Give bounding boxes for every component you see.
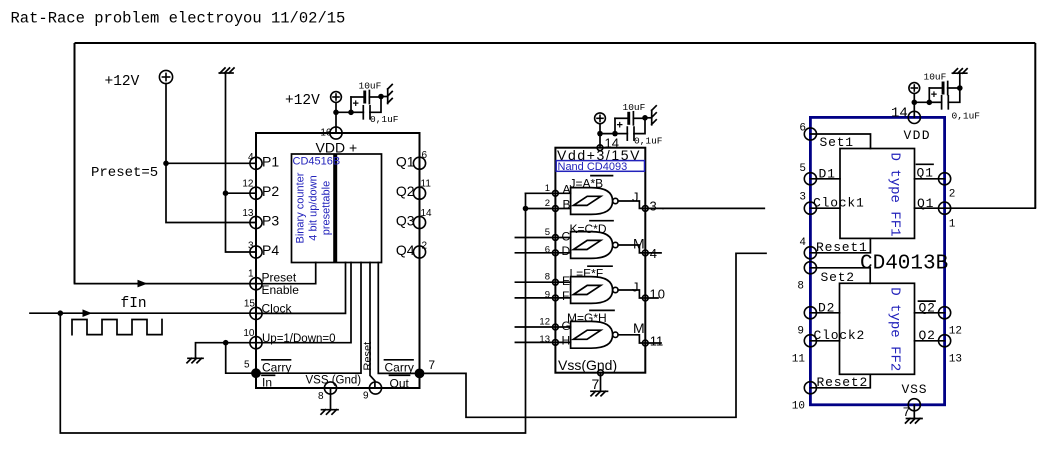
wire Reset1 into FF1 bbox=[810, 238, 870, 252]
svg-text:12: 12 bbox=[539, 317, 550, 328]
wire Set2 into FF2 bbox=[810, 268, 870, 284]
svg-text:11: 11 bbox=[792, 353, 806, 365]
counter pin P2 (12) bbox=[250, 187, 262, 199]
ground (top chassis symbol) bbox=[219, 68, 234, 73]
svg-text:8: 8 bbox=[545, 272, 550, 283]
wire Reset2 into FF2 bbox=[810, 374, 870, 388]
svg-text:2: 2 bbox=[545, 198, 550, 209]
node cap ground node bbox=[642, 115, 648, 121]
svg-text:J=A*B: J=A*B bbox=[570, 177, 604, 191]
svg-text:Reset: Reset bbox=[362, 342, 374, 371]
node cap ground node bbox=[378, 94, 384, 100]
wire junction to P1 bbox=[166, 162, 256, 164]
wire to cap node bbox=[600, 133, 615, 135]
svg-text:1: 1 bbox=[949, 219, 956, 231]
wire Q1 to feedback loop bbox=[915, 207, 1036, 209]
ground under FF pin 7 bbox=[906, 405, 923, 423]
capacitor C6 0,1uF bbox=[929, 101, 941, 103]
gate U2C schmitt mark bbox=[573, 285, 600, 294]
gate U2A output bubble bbox=[613, 198, 618, 203]
NAND pin 4 bbox=[642, 250, 648, 256]
capacitor C2 0,1uF bbox=[351, 111, 363, 113]
svg-text:10uF: 10uF bbox=[359, 81, 382, 92]
svg-text:10: 10 bbox=[792, 400, 805, 412]
svg-text:M=G*H: M=G*H bbox=[567, 311, 607, 325]
svg-text:5: 5 bbox=[244, 360, 250, 371]
NAND pin 8 bbox=[553, 279, 559, 285]
counter pin 7 Carry Out (junction dot) bbox=[415, 369, 425, 379]
svg-text:9: 9 bbox=[363, 391, 369, 402]
wire junction down to Carry In bbox=[226, 343, 256, 374]
counter pin 8 VSS bbox=[324, 382, 336, 394]
svg-text:2: 2 bbox=[422, 241, 428, 252]
wire pin15 into chip bbox=[256, 263, 346, 314]
svg-text:+: + bbox=[353, 98, 359, 110]
wire feedback loop (Q1 to Preset Enable): top segment bbox=[75, 42, 1036, 44]
wire Clock1 stub bbox=[810, 207, 840, 209]
FF1 inner box bbox=[840, 149, 915, 239]
node junction +12V/P1 bbox=[163, 161, 169, 167]
svg-text:7: 7 bbox=[592, 376, 600, 392]
svg-text:11: 11 bbox=[421, 179, 432, 190]
capacitor C4 0,1uF bbox=[615, 133, 627, 135]
power +12V terminal (FF) bbox=[909, 83, 920, 94]
gate U2B (K=C*D) body bbox=[571, 232, 613, 259]
gate U2D output wire to pin 11 bbox=[618, 335, 661, 343]
wire Q2 stub bbox=[915, 340, 945, 342]
ground under NAND pin 7 bbox=[591, 373, 608, 396]
ground (rotated chassis, counter caps) bbox=[388, 85, 393, 104]
svg-text:15: 15 bbox=[244, 299, 256, 310]
FF pin 8 Set2 bbox=[804, 262, 816, 274]
svg-text:F: F bbox=[562, 289, 569, 303]
svg-text:P4: P4 bbox=[262, 242, 279, 258]
svg-text:Nand CD4093: Nand CD4093 bbox=[558, 161, 628, 173]
arrow on fIn wire bbox=[83, 309, 93, 317]
svg-text:Carry: Carry bbox=[385, 360, 414, 374]
ground (mid-left chassis) bbox=[187, 358, 203, 363]
counter pin P1 (4) bbox=[250, 157, 262, 169]
wire supply to pin 16 bbox=[335, 102, 337, 133]
gate U2A output wire to pin 3 bbox=[618, 201, 663, 208]
svg-text:13: 13 bbox=[242, 208, 254, 219]
NAND U2 box bbox=[555, 148, 645, 373]
svg-text:CD4516B: CD4516B bbox=[293, 155, 341, 167]
node junction ground/P2 bbox=[223, 190, 229, 196]
power +12V terminal (NAND) bbox=[595, 113, 606, 124]
NAND pin 9 bbox=[553, 295, 559, 301]
svg-text:3: 3 bbox=[799, 192, 806, 204]
svg-text:Q4: Q4 bbox=[396, 242, 415, 258]
node junction cap branch bbox=[597, 131, 603, 137]
power +12V terminal (left) bbox=[159, 70, 172, 83]
svg-text:Rat-Race problem electroyou 11: Rat-Race problem electroyou 11/02/15 bbox=[11, 10, 346, 28]
svg-text:+: + bbox=[931, 89, 937, 101]
wire feedback loop: left segment bbox=[74, 43, 76, 284]
svg-text:D type FF2: D type FF2 bbox=[887, 287, 903, 371]
wire supply to pin 14 bbox=[599, 124, 601, 148]
svg-text:Out: Out bbox=[390, 376, 410, 390]
svg-text:12: 12 bbox=[242, 179, 254, 190]
svg-text:5: 5 bbox=[799, 163, 806, 175]
svg-text:VDD +: VDD + bbox=[316, 140, 358, 156]
wire fIn feed to NAND inputs (bottom run) bbox=[60, 193, 525, 433]
svg-text:M: M bbox=[633, 320, 645, 336]
NAND pin 1 bbox=[553, 190, 559, 196]
svg-text:8: 8 bbox=[797, 280, 804, 292]
svg-text:Set2: Set2 bbox=[821, 270, 855, 285]
wire preset-enable (to counter pin 1) bbox=[75, 283, 257, 285]
counter pin 9 Reset bbox=[369, 382, 381, 394]
wire carry-in into chip bbox=[256, 263, 361, 374]
svg-text:VSS (Gnd): VSS (Gnd) bbox=[306, 375, 362, 387]
FF2 inner box bbox=[840, 283, 915, 374]
svg-text:4 bit up/down: 4 bit up/down bbox=[308, 175, 320, 240]
ground (top chassis, FF caps) bbox=[952, 69, 967, 74]
svg-text:K=C*D: K=C*D bbox=[570, 222, 607, 236]
counter pin P3 (13) bbox=[250, 216, 262, 228]
counter pin Q4 (2) bbox=[413, 246, 425, 258]
counter U1 inner body box bbox=[292, 154, 382, 263]
gate U2A schmitt mark bbox=[573, 196, 600, 205]
NAND pin 3 bbox=[642, 206, 648, 212]
wire feedback loop: right segment bbox=[1034, 43, 1036, 208]
svg-text:presettable: presettable bbox=[321, 181, 333, 235]
svg-text:14: 14 bbox=[421, 208, 433, 219]
node fIn junction bbox=[58, 310, 64, 316]
gate U2D input stubs bbox=[515, 326, 570, 328]
gate U2A input stubs bbox=[526, 192, 571, 194]
wire Q2bar stub bbox=[915, 312, 945, 314]
wire to cap node bbox=[914, 101, 929, 103]
svg-text:Enable: Enable bbox=[262, 283, 300, 297]
svg-text:4: 4 bbox=[248, 152, 254, 163]
FF pin 4 Reset1 bbox=[804, 247, 816, 259]
gate U2B schmitt mark bbox=[573, 240, 600, 249]
svg-text:9: 9 bbox=[545, 289, 550, 300]
NAND pin 7 VSS bbox=[598, 370, 604, 376]
svg-text:13: 13 bbox=[539, 334, 550, 345]
svg-text:Q3: Q3 bbox=[396, 213, 415, 229]
node cap node bbox=[348, 110, 354, 116]
NAND pin 13 bbox=[553, 340, 559, 346]
wire pin1 into chip bbox=[256, 263, 316, 284]
FF pin 10 Reset2 bbox=[804, 382, 816, 394]
counter pin 5 Carry In (junction dot) bbox=[251, 368, 261, 378]
svg-text:6: 6 bbox=[799, 122, 806, 134]
svg-text:L=E*F: L=E*F bbox=[570, 266, 604, 280]
node cap ground node bbox=[957, 85, 963, 91]
counter U1 inner divider (thick) bbox=[333, 154, 337, 263]
counter pin 1 Preset Enable bbox=[250, 278, 262, 290]
node junction ground/carry-in bbox=[223, 340, 229, 346]
FF U3 outer box (navy) bbox=[810, 117, 944, 404]
gate U2D schmitt mark bbox=[573, 330, 600, 339]
svg-text:+12V: +12V bbox=[105, 74, 140, 90]
svg-text:P3: P3 bbox=[262, 213, 279, 229]
wire +12V rail down to P3 bbox=[166, 84, 256, 223]
wire to cap node bbox=[336, 111, 351, 113]
svg-text:9: 9 bbox=[797, 325, 804, 337]
svg-text:H: H bbox=[562, 333, 571, 347]
svg-text:10: 10 bbox=[650, 286, 666, 301]
wire D2 stub bbox=[810, 312, 839, 314]
svg-text:16: 16 bbox=[320, 128, 332, 139]
wire supply to FF pin 14 bbox=[913, 93, 915, 117]
svg-text:4: 4 bbox=[650, 246, 657, 261]
FF pin 14 VDD bbox=[908, 111, 920, 123]
svg-text:J: J bbox=[632, 190, 639, 205]
FF pin 6 Set1 bbox=[804, 128, 816, 140]
svg-text:12: 12 bbox=[949, 325, 962, 337]
FF pin 2 Q1bar bbox=[939, 173, 951, 185]
gate U2C input stubs bbox=[515, 281, 570, 283]
svg-text:P2: P2 bbox=[262, 183, 279, 199]
svg-text:0,1uF: 0,1uF bbox=[370, 114, 399, 125]
wire to ground bbox=[645, 117, 652, 119]
svg-text:1: 1 bbox=[248, 269, 254, 280]
FF pin 9 D2 bbox=[804, 307, 816, 319]
wire to ground bbox=[959, 73, 961, 88]
gate U2A (J=A*B) body bbox=[571, 188, 613, 215]
svg-text:P1: P1 bbox=[262, 153, 279, 169]
FF pin 11 Clock2 bbox=[804, 335, 816, 347]
power +12V terminal (counter) bbox=[331, 92, 342, 103]
squarewave symbol bbox=[72, 320, 162, 335]
gate U2D (M=G*H) body bbox=[571, 321, 613, 348]
svg-text:4: 4 bbox=[799, 237, 806, 249]
wire Set1 into FF1 bbox=[810, 134, 870, 149]
svg-text:14: 14 bbox=[891, 106, 908, 122]
svg-text:10: 10 bbox=[243, 328, 255, 339]
svg-text:D: D bbox=[562, 244, 571, 258]
NAND pin 5 bbox=[553, 235, 559, 241]
gate U2B output wire to pin 4 bbox=[618, 245, 661, 253]
svg-text:Set1: Set1 bbox=[820, 135, 854, 150]
counter carry-out net (internal) bbox=[378, 263, 419, 374]
gate U2C output bubble bbox=[613, 287, 618, 292]
NAND pin 12 bbox=[553, 324, 559, 330]
svg-text:3: 3 bbox=[248, 241, 254, 252]
wire Q1bar stub bbox=[915, 178, 945, 180]
svg-text:11: 11 bbox=[650, 334, 664, 349]
wire carry-out to Reset1 (feedback) bbox=[420, 253, 767, 417]
FF pin 13 Q2 bbox=[939, 335, 951, 347]
node cap node bbox=[612, 131, 618, 137]
capacitor C5 10uF (electrolytic) bbox=[928, 88, 930, 102]
counter pin 10 Up/Down bbox=[250, 337, 262, 349]
counter pin Q3 (14) bbox=[413, 216, 425, 228]
svg-text:10uF: 10uF bbox=[623, 102, 646, 113]
ground (rotated chassis, NAND caps) bbox=[652, 106, 657, 125]
FF pin 12 Q2bar bbox=[939, 307, 951, 319]
FF pin 3 Clock1 bbox=[804, 202, 816, 214]
counter U1 outer box bbox=[256, 133, 420, 388]
svg-text:13: 13 bbox=[949, 353, 962, 365]
FF pin 1 Q1 bbox=[939, 202, 951, 214]
capacitor C3 10uF (electrolytic) bbox=[614, 118, 616, 133]
svg-text:Q1: Q1 bbox=[396, 153, 415, 169]
counter pin Q1 (6) bbox=[413, 157, 425, 169]
NAND pin 6 bbox=[553, 250, 559, 256]
svg-text:0,1uF: 0,1uF bbox=[952, 111, 981, 122]
node junction NAND pin 2 bbox=[523, 206, 529, 212]
svg-text:VSS: VSS bbox=[902, 382, 928, 397]
node cap node bbox=[927, 100, 933, 106]
counter pin Q2 (11) bbox=[413, 187, 425, 199]
NAND pin 10 bbox=[642, 295, 648, 301]
svg-text:+12V: +12V bbox=[285, 93, 320, 109]
svg-text:14: 14 bbox=[605, 136, 619, 151]
svg-text:In: In bbox=[262, 376, 272, 390]
svg-text:Vss(Gnd): Vss(Gnd) bbox=[558, 357, 617, 373]
svg-text:0,1uF: 0,1uF bbox=[634, 135, 663, 146]
node junction cap branch bbox=[912, 100, 918, 106]
gate U2D output bubble bbox=[613, 332, 618, 337]
NAND pin 2 bbox=[553, 206, 559, 212]
svg-text:B: B bbox=[563, 198, 571, 212]
FF pin 5 D1 bbox=[804, 173, 816, 185]
svg-text:Q2: Q2 bbox=[396, 183, 415, 199]
svg-text:8: 8 bbox=[318, 391, 324, 402]
node junction cap branch bbox=[333, 110, 339, 116]
NAND pin 14 VDD bbox=[597, 145, 603, 151]
capacitor C1 10uF (electrolytic) bbox=[350, 97, 352, 112]
svg-text:6: 6 bbox=[545, 244, 550, 255]
svg-text:Binary counter: Binary counter bbox=[295, 172, 307, 243]
svg-text:1: 1 bbox=[545, 183, 550, 194]
NAND pin 11 bbox=[642, 340, 648, 346]
gate U2C output wire to pin 10 bbox=[618, 290, 658, 298]
counter pin P4 (3) bbox=[250, 246, 262, 258]
svg-text:2: 2 bbox=[949, 189, 956, 201]
svg-text:7: 7 bbox=[428, 358, 435, 372]
counter pin 16 VDD bbox=[330, 127, 342, 139]
counter reset net (to pin 9) bbox=[370, 263, 375, 389]
wire ground rail down to P4 bbox=[226, 73, 257, 252]
wire fIn to Clock bbox=[30, 312, 256, 314]
wire junction to P2 bbox=[226, 192, 257, 194]
svg-text:6: 6 bbox=[422, 150, 428, 161]
ground under pin 8 bbox=[321, 388, 338, 414]
svg-text:CD4013B: CD4013B bbox=[860, 252, 948, 275]
svg-text:VDD: VDD bbox=[904, 128, 931, 143]
gate U2B input stubs bbox=[515, 237, 570, 239]
arrow on preset-enable wire bbox=[138, 280, 148, 288]
wire pin10 into chip bbox=[256, 263, 351, 343]
svg-text:J: J bbox=[632, 280, 639, 295]
svg-text:M: M bbox=[633, 235, 645, 251]
FF pin 7 VSS bbox=[908, 399, 920, 411]
wire ground to Up/Down bbox=[196, 343, 257, 359]
svg-text:+: + bbox=[617, 119, 623, 131]
label box Nand CD4093 (blue) bbox=[556, 161, 644, 172]
gate U2B output bubble bbox=[613, 242, 618, 247]
svg-text:5: 5 bbox=[545, 227, 550, 238]
counter pin 15 Clock bbox=[250, 307, 262, 319]
svg-text:10uF: 10uF bbox=[924, 72, 947, 83]
svg-text:D type FF1: D type FF1 bbox=[887, 153, 903, 237]
svg-text:fIn: fIn bbox=[121, 296, 147, 312]
svg-text:Preset=5: Preset=5 bbox=[91, 165, 158, 181]
wire to ground bbox=[381, 96, 388, 98]
gate U2C (L=E*F) body bbox=[571, 277, 613, 304]
wire Clock2 stub bbox=[810, 340, 839, 342]
svg-text:3: 3 bbox=[650, 198, 657, 213]
wire D1 stub bbox=[810, 178, 840, 180]
wire net J to Clock1 bbox=[663, 207, 764, 209]
